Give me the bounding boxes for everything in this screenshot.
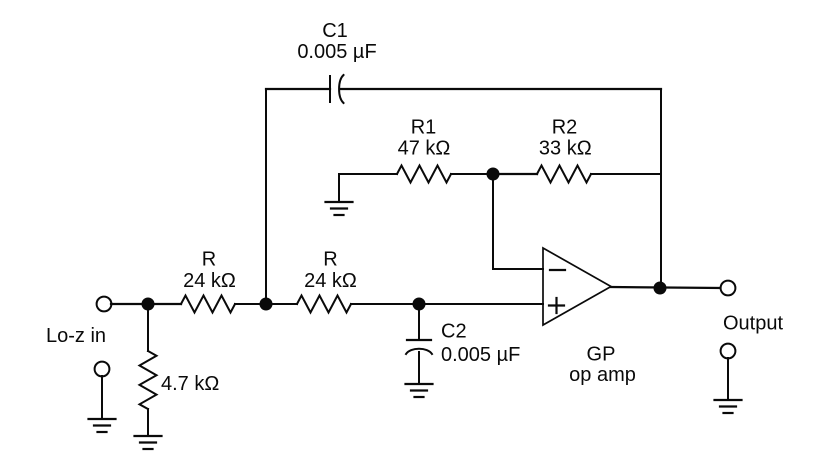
resistor R1 47k zigzag	[397, 166, 451, 183]
svg-text:C1: C1	[322, 20, 348, 42]
capacitor C1	[330, 75, 344, 103]
value 24 kOhm second	[304, 270, 357, 292]
capacitor C2	[406, 340, 432, 354]
op-amp U1 GP triangle	[543, 248, 611, 325]
node C junction dot (C1 branch)	[260, 298, 273, 311]
label R first	[202, 249, 216, 271]
svg-text:4.7 kΩ: 4.7 kΩ	[161, 373, 219, 395]
value 33 kOhm for R2	[539, 138, 592, 160]
node E junction dot (output / feedback)	[654, 282, 667, 295]
node D junction dot (C2 branch)	[413, 298, 426, 311]
resistor 4.7k vertical zigzag	[140, 351, 157, 409]
wire input reference to ground	[101, 376, 103, 417]
terminal output reference open circle	[721, 344, 736, 359]
svg-text:C2: C2	[441, 321, 467, 343]
wire right vertical feedback from top wire down to output node	[660, 89, 662, 288]
wire from R2 to right vertical	[591, 173, 661, 175]
value 0.005 uF for C2	[441, 344, 520, 366]
ground for 4.7k	[135, 436, 162, 449]
svg-text:47 kΩ: 47 kΩ	[398, 138, 451, 160]
label op amp	[569, 364, 636, 386]
wire from node A down and right to inverting input	[493, 174, 543, 269]
ground for output reference	[715, 400, 742, 413]
svg-text:33 kΩ: 33 kΩ	[539, 138, 592, 160]
svg-text:R2: R2	[552, 117, 578, 139]
wire from node A to R2	[493, 173, 537, 175]
value 4.7 kOhm	[161, 373, 219, 395]
label C1	[322, 20, 348, 42]
wire C2 to ground	[418, 352, 420, 382]
wire top-left vertical from C1 branch down to main row	[265, 89, 267, 304]
terminal input open circle	[97, 297, 112, 312]
wire first R to node C	[235, 303, 266, 305]
svg-text:Output: Output	[723, 313, 783, 335]
svg-text:op amp: op amp	[569, 364, 636, 386]
label GP	[587, 344, 616, 366]
svg-text:0.005 µF: 0.005 µF	[297, 41, 376, 63]
wire output reference to ground	[727, 358, 729, 398]
svg-text:Lo-z in: Lo-z in	[46, 325, 106, 347]
label Lo-z in	[46, 325, 106, 347]
wire node D down to C2	[418, 304, 420, 340]
wire top horizontal right segment from C1 to right vertical	[341, 88, 662, 90]
wire from R1 to node A	[451, 173, 493, 175]
label R2	[552, 117, 578, 139]
label Output	[723, 313, 783, 335]
ground for C2	[406, 384, 433, 397]
resistor R2 33k zigzag	[537, 166, 591, 183]
terminal output open circle	[721, 281, 736, 296]
node A junction dot (R1/R2/inverting input)	[487, 168, 500, 181]
label R1	[411, 117, 437, 139]
value 47 kOhm for R1	[398, 138, 451, 160]
svg-text:R1: R1	[411, 117, 437, 139]
wire second R to node D	[351, 303, 419, 305]
node B junction dot (input / 4.7k shunt)	[142, 298, 155, 311]
wire node C to second R	[266, 303, 297, 305]
svg-text:24 kΩ: 24 kΩ	[304, 270, 357, 292]
label C2	[441, 321, 467, 343]
ground for input reference	[89, 419, 116, 432]
value 0.005 uF for C1	[297, 41, 376, 63]
wire op-amp output to output terminal	[611, 287, 721, 288]
svg-text:R: R	[202, 249, 216, 271]
ground for R1 stub	[326, 202, 353, 215]
svg-text:0.005 µF: 0.005 µF	[441, 344, 520, 366]
wire node B down to 4.7k resistor	[147, 304, 149, 351]
wire 4.7k to ground	[147, 409, 149, 435]
wire top horizontal left segment to C1	[266, 88, 330, 90]
label R second	[323, 249, 337, 271]
value 24 kOhm first	[183, 270, 236, 292]
wire node B to first R	[148, 303, 181, 305]
wire input circle to node B	[111, 303, 148, 305]
svg-text:R: R	[323, 249, 337, 271]
svg-text:GP: GP	[587, 344, 616, 366]
resistor R 24k first zigzag	[181, 296, 235, 313]
terminal input reference open circle	[95, 362, 110, 377]
wire R1 left stub from ground up to R1	[339, 174, 397, 201]
resistor R 24k second zigzag	[297, 296, 351, 313]
wire node D to non-inverting input	[419, 303, 543, 305]
svg-text:24 kΩ: 24 kΩ	[183, 270, 236, 292]
